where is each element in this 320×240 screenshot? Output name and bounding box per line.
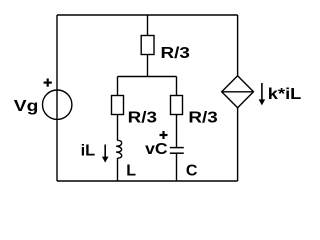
wire left branch bottom bbox=[117, 158, 119, 181]
wire left vertical bbox=[56, 15, 58, 181]
current arrow iL bbox=[102, 145, 109, 163]
voltage source Vg circle bbox=[43, 90, 72, 119]
svg-text:L: L bbox=[126, 163, 136, 180]
wire right branch bottom bbox=[176, 153, 178, 181]
resistor R/3 right body bbox=[171, 96, 183, 115]
wire top horizontal bbox=[57, 14, 238, 16]
svg-text:k*iL: k*iL bbox=[268, 86, 302, 103]
wire right vertical lower bbox=[237, 108, 239, 181]
resistor R/3 top body bbox=[141, 36, 154, 55]
resistor R/3 left body bbox=[112, 96, 124, 115]
svg-text:C: C bbox=[186, 163, 198, 180]
wire right branch top bbox=[176, 77, 178, 96]
svg-text:R/3: R/3 bbox=[188, 110, 218, 127]
svg-text:R/3: R/3 bbox=[128, 110, 158, 127]
capacitor C top plate bbox=[170, 147, 184, 149]
capacitor C bottom plate bbox=[170, 152, 184, 154]
svg-text:vC: vC bbox=[145, 141, 168, 158]
wire left branch middle bbox=[117, 115, 119, 141]
dependent source diamond k*iL bbox=[222, 76, 254, 108]
svg-text:Vg: Vg bbox=[14, 98, 39, 115]
wire bottom horizontal bbox=[57, 180, 238, 182]
dependent source diamond chord bbox=[222, 91, 254, 93]
svg-text:R/3: R/3 bbox=[161, 45, 191, 62]
current arrow k*iL bbox=[259, 83, 266, 105]
wire right vertical upper bbox=[237, 15, 239, 76]
wire middle branch lower bbox=[147, 55, 149, 77]
vC + polarity mark bbox=[160, 131, 168, 139]
wire right branch middle bbox=[176, 115, 178, 148]
voltage source + polarity mark bbox=[44, 79, 52, 87]
svg-text:iL: iL bbox=[81, 142, 96, 159]
wire splitter bar bbox=[118, 76, 177, 78]
wire left branch top bbox=[117, 77, 119, 96]
inductor L coil bbox=[116, 140, 122, 158]
wire middle branch upper bbox=[147, 15, 149, 36]
